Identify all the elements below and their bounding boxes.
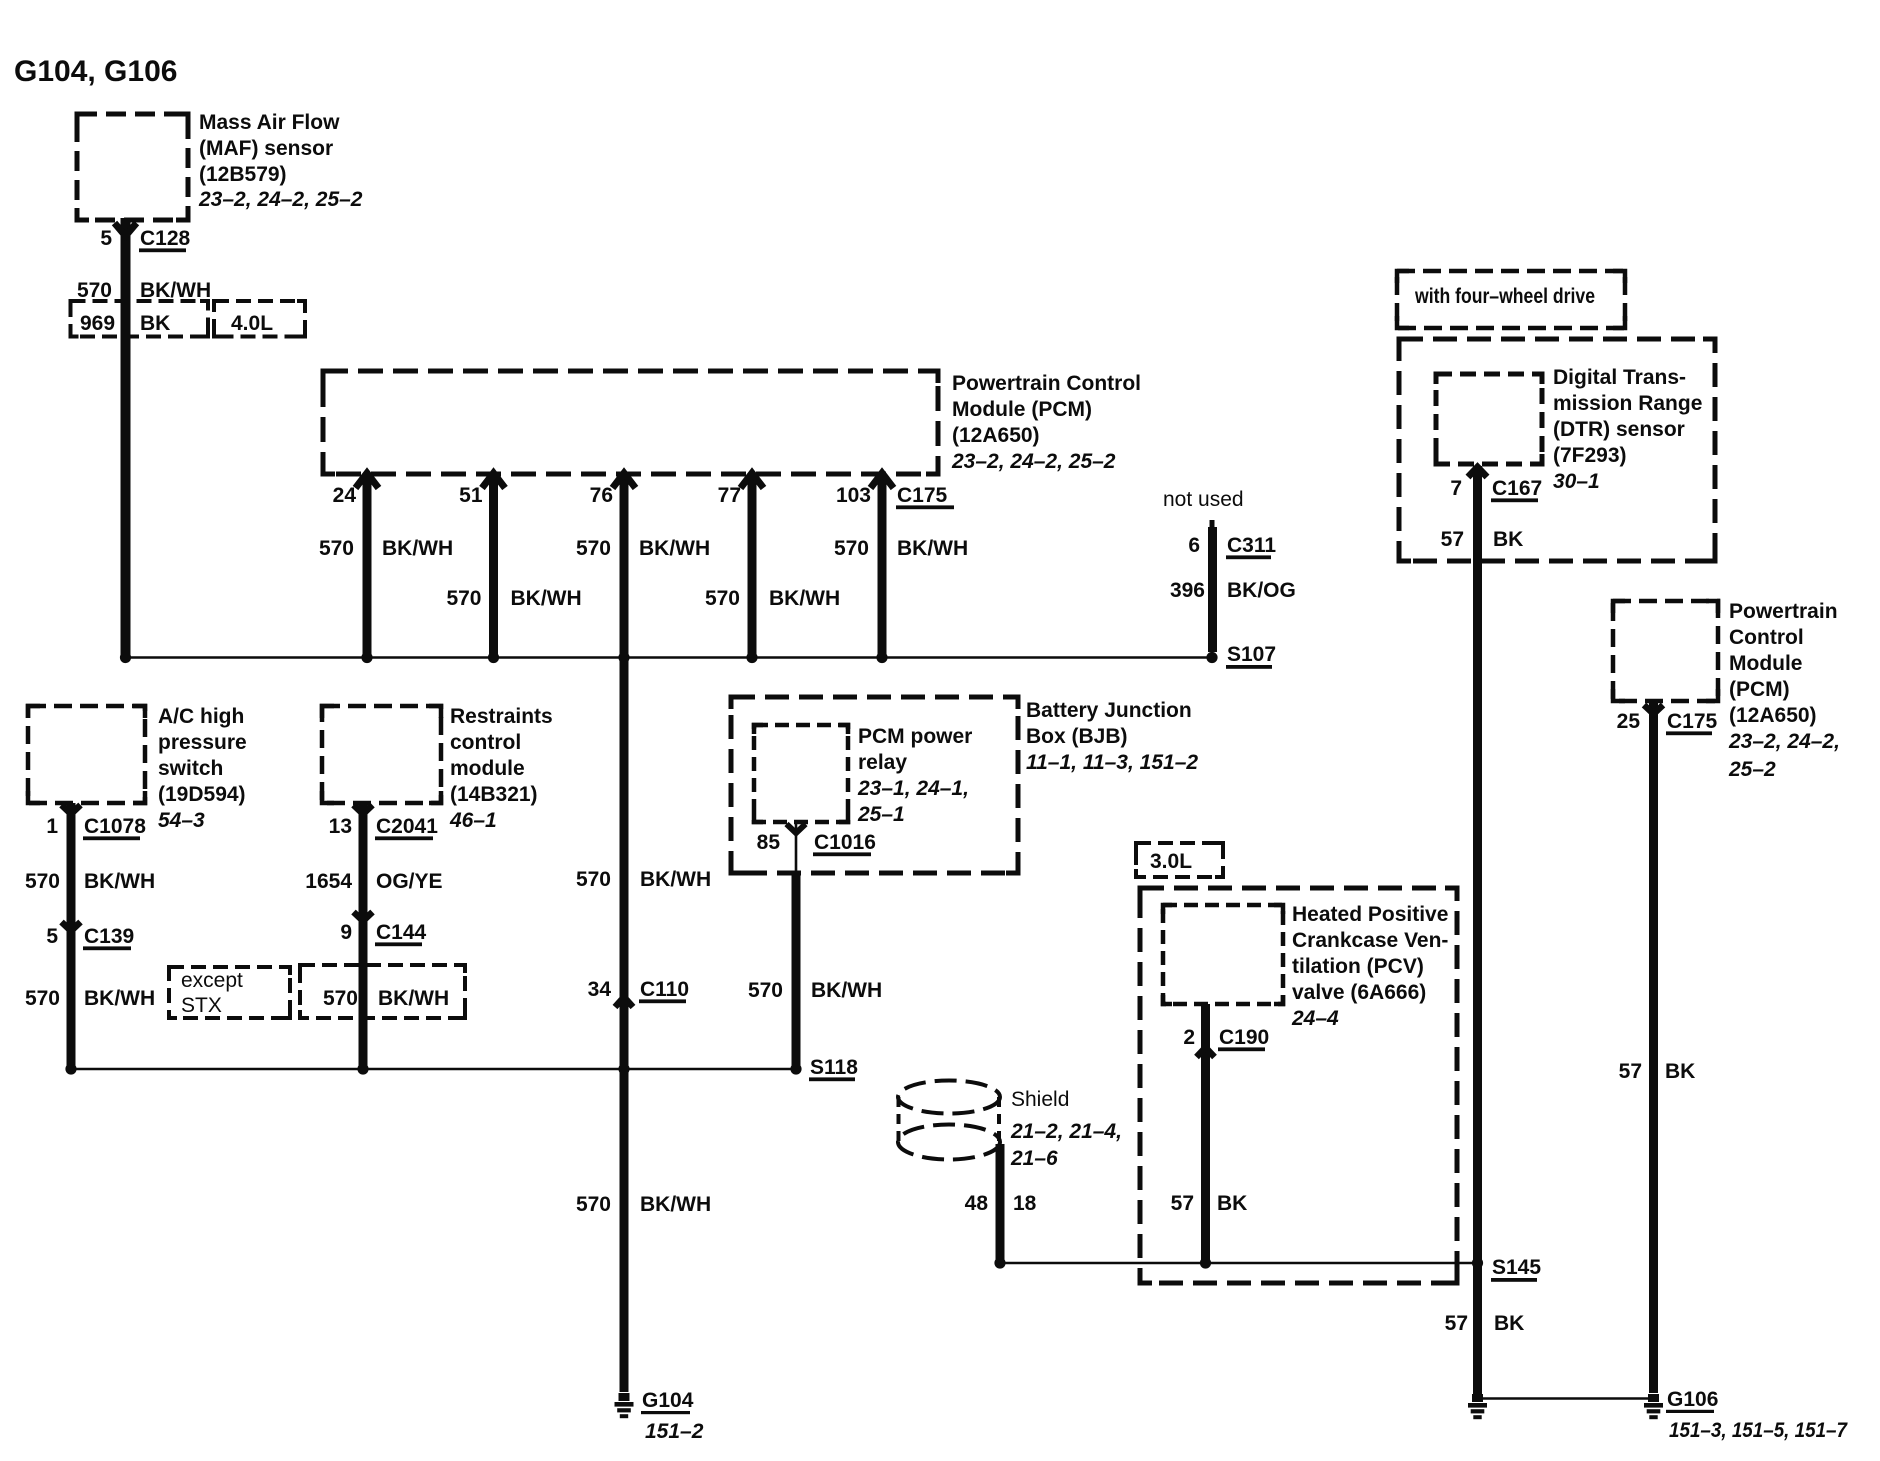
svg-text:except: except bbox=[181, 969, 243, 992]
svg-text:Mass Air Flow: Mass Air Flow bbox=[199, 111, 340, 134]
svg-text:151–3, 151–5, 151–7: 151–3, 151–5, 151–7 bbox=[1669, 1419, 1848, 1442]
svg-text:Box (BJB): Box (BJB) bbox=[1026, 725, 1128, 748]
svg-text:BK/WH: BK/WH bbox=[382, 537, 453, 560]
svg-text:Powertrain Control: Powertrain Control bbox=[952, 372, 1141, 395]
svg-text:21–2, 21–4,: 21–2, 21–4, bbox=[1010, 1120, 1122, 1143]
svg-text:(12A650): (12A650) bbox=[952, 424, 1040, 447]
svg-text:23–1, 24–1,: 23–1, 24–1, bbox=[857, 777, 969, 800]
svg-text:with four–wheel drive: with four–wheel drive bbox=[1414, 285, 1595, 308]
svg-text:G106: G106 bbox=[1667, 1388, 1718, 1411]
svg-text:1654: 1654 bbox=[305, 870, 352, 893]
svg-text:Crankcase Ven-: Crankcase Ven- bbox=[1292, 929, 1448, 952]
svg-text:(PCM): (PCM) bbox=[1729, 678, 1790, 701]
svg-text:Battery Junction: Battery Junction bbox=[1026, 699, 1192, 722]
svg-text:25–2: 25–2 bbox=[1728, 758, 1776, 781]
svg-text:BK/OG: BK/OG bbox=[1227, 579, 1296, 602]
svg-text:23–2, 24–2, 25–2: 23–2, 24–2, 25–2 bbox=[951, 450, 1116, 473]
svg-text:relay: relay bbox=[858, 751, 907, 774]
svg-text:570: 570 bbox=[834, 537, 869, 560]
svg-text:C175: C175 bbox=[1667, 710, 1718, 733]
svg-text:Heated Positive: Heated Positive bbox=[1292, 903, 1448, 926]
svg-text:BK/WH: BK/WH bbox=[897, 537, 968, 560]
svg-text:(12B579): (12B579) bbox=[199, 163, 287, 186]
svg-text:Digital Trans-: Digital Trans- bbox=[1553, 366, 1686, 389]
svg-text:34: 34 bbox=[588, 978, 612, 1001]
svg-text:C167: C167 bbox=[1492, 477, 1542, 500]
svg-text:Module: Module bbox=[1729, 652, 1803, 675]
svg-text:BK: BK bbox=[140, 312, 170, 335]
svg-text:G104: G104 bbox=[642, 1389, 694, 1412]
svg-text:570: 570 bbox=[705, 587, 740, 610]
svg-text:STX: STX bbox=[181, 994, 222, 1017]
svg-text:C175: C175 bbox=[897, 484, 948, 507]
svg-text:Shield: Shield bbox=[1011, 1088, 1069, 1111]
svg-text:3.0L: 3.0L bbox=[1150, 850, 1192, 873]
svg-text:C311: C311 bbox=[1227, 534, 1276, 557]
svg-text:PCM power: PCM power bbox=[858, 725, 972, 748]
svg-text:5: 5 bbox=[46, 925, 58, 948]
svg-text:Control: Control bbox=[1729, 626, 1804, 649]
svg-text:(12A650): (12A650) bbox=[1729, 704, 1817, 727]
svg-text:24–4: 24–4 bbox=[1291, 1007, 1339, 1030]
svg-text:BK: BK bbox=[1217, 1192, 1247, 1215]
svg-text:570: 570 bbox=[323, 987, 358, 1010]
svg-text:BK/WH: BK/WH bbox=[378, 987, 449, 1010]
svg-text:C128: C128 bbox=[140, 227, 191, 250]
svg-text:6: 6 bbox=[1188, 534, 1200, 557]
svg-text:24: 24 bbox=[333, 484, 357, 507]
svg-text:25–1: 25–1 bbox=[857, 803, 905, 826]
svg-text:BK/WH: BK/WH bbox=[639, 537, 710, 560]
svg-text:(DTR) sensor: (DTR) sensor bbox=[1553, 418, 1685, 441]
svg-text:C1078: C1078 bbox=[84, 815, 146, 838]
svg-text:switch: switch bbox=[158, 757, 223, 780]
svg-text:BK/WH: BK/WH bbox=[511, 587, 582, 610]
svg-text:4.0L: 4.0L bbox=[231, 312, 273, 335]
svg-text:54–3: 54–3 bbox=[158, 809, 205, 832]
svg-text:570: 570 bbox=[25, 987, 60, 1010]
svg-text:570: 570 bbox=[576, 1193, 611, 1216]
svg-text:A/C high: A/C high bbox=[158, 705, 244, 728]
svg-text:103: 103 bbox=[836, 484, 871, 507]
svg-text:not used: not used bbox=[1163, 488, 1244, 511]
svg-text:BK/WH: BK/WH bbox=[84, 987, 155, 1010]
svg-text:tilation (PCV): tilation (PCV) bbox=[1292, 955, 1424, 978]
svg-text:(7F293): (7F293) bbox=[1553, 444, 1627, 467]
svg-text:57: 57 bbox=[1445, 1312, 1468, 1335]
svg-text:570: 570 bbox=[576, 868, 611, 891]
svg-text:BK/WH: BK/WH bbox=[140, 279, 211, 302]
svg-text:BK: BK bbox=[1494, 1312, 1524, 1335]
svg-text:Module (PCM): Module (PCM) bbox=[952, 398, 1092, 421]
svg-text:BK/WH: BK/WH bbox=[769, 587, 840, 610]
svg-text:570: 570 bbox=[446, 587, 481, 610]
svg-text:Restraints: Restraints bbox=[450, 705, 553, 728]
svg-text:C2041: C2041 bbox=[376, 815, 438, 838]
svg-text:51: 51 bbox=[459, 484, 483, 507]
svg-text:23–2, 24–2, 25–2: 23–2, 24–2, 25–2 bbox=[198, 188, 363, 211]
svg-text:7: 7 bbox=[1450, 477, 1462, 500]
svg-text:BK: BK bbox=[1665, 1060, 1695, 1083]
svg-text:control: control bbox=[450, 731, 521, 754]
svg-text:module: module bbox=[450, 757, 525, 780]
svg-text:C139: C139 bbox=[84, 925, 134, 948]
svg-text:77: 77 bbox=[718, 484, 741, 507]
svg-text:pressure: pressure bbox=[158, 731, 247, 754]
svg-text:76: 76 bbox=[590, 484, 613, 507]
svg-text:C190: C190 bbox=[1219, 1026, 1269, 1049]
svg-text:21–6: 21–6 bbox=[1010, 1147, 1058, 1170]
svg-text:9: 9 bbox=[340, 921, 352, 944]
svg-text:S107: S107 bbox=[1227, 643, 1276, 666]
svg-text:S145: S145 bbox=[1492, 1256, 1541, 1279]
svg-text:G104, G106: G104, G106 bbox=[14, 55, 177, 88]
svg-text:(19D594): (19D594) bbox=[158, 783, 246, 806]
svg-text:(14B321): (14B321) bbox=[450, 783, 538, 806]
svg-text:57: 57 bbox=[1619, 1060, 1642, 1083]
svg-text:Powertrain: Powertrain bbox=[1729, 600, 1838, 623]
svg-text:5: 5 bbox=[100, 227, 112, 250]
svg-text:1: 1 bbox=[46, 815, 58, 838]
svg-text:OG/YE: OG/YE bbox=[376, 870, 443, 893]
svg-text:11–1, 11–3, 151–2: 11–1, 11–3, 151–2 bbox=[1026, 751, 1198, 774]
svg-text:969: 969 bbox=[80, 312, 115, 335]
svg-text:570: 570 bbox=[319, 537, 354, 560]
svg-text:valve (6A666): valve (6A666) bbox=[1292, 981, 1426, 1004]
svg-text:BK/WH: BK/WH bbox=[640, 1193, 711, 1216]
svg-text:57: 57 bbox=[1441, 528, 1464, 551]
svg-text:BK/WH: BK/WH bbox=[84, 870, 155, 893]
svg-text:570: 570 bbox=[576, 537, 611, 560]
svg-text:23–2, 24–2,: 23–2, 24–2, bbox=[1728, 730, 1840, 753]
svg-text:BK/WH: BK/WH bbox=[640, 868, 711, 891]
svg-text:57: 57 bbox=[1171, 1192, 1194, 1215]
svg-text:30–1: 30–1 bbox=[1553, 470, 1600, 493]
svg-text:S118: S118 bbox=[810, 1056, 858, 1079]
svg-text:13: 13 bbox=[329, 815, 352, 838]
svg-text:2: 2 bbox=[1183, 1026, 1195, 1049]
svg-text:151–2: 151–2 bbox=[645, 1420, 704, 1443]
svg-text:85: 85 bbox=[757, 831, 781, 854]
svg-text:570: 570 bbox=[748, 979, 783, 1002]
svg-text:BK: BK bbox=[1493, 528, 1523, 551]
svg-text:BK/WH: BK/WH bbox=[811, 979, 882, 1002]
svg-text:C110: C110 bbox=[640, 978, 689, 1001]
svg-text:396: 396 bbox=[1170, 579, 1205, 602]
svg-text:18: 18 bbox=[1013, 1192, 1037, 1215]
svg-text:(MAF) sensor: (MAF) sensor bbox=[199, 137, 333, 160]
svg-text:C1016: C1016 bbox=[814, 831, 876, 854]
svg-text:46–1: 46–1 bbox=[449, 809, 497, 832]
svg-text:48: 48 bbox=[965, 1192, 989, 1215]
svg-text:mission Range: mission Range bbox=[1553, 392, 1702, 415]
svg-text:C144: C144 bbox=[376, 921, 427, 944]
svg-text:25: 25 bbox=[1617, 710, 1641, 733]
svg-text:570: 570 bbox=[25, 870, 60, 893]
svg-text:570: 570 bbox=[77, 279, 112, 302]
